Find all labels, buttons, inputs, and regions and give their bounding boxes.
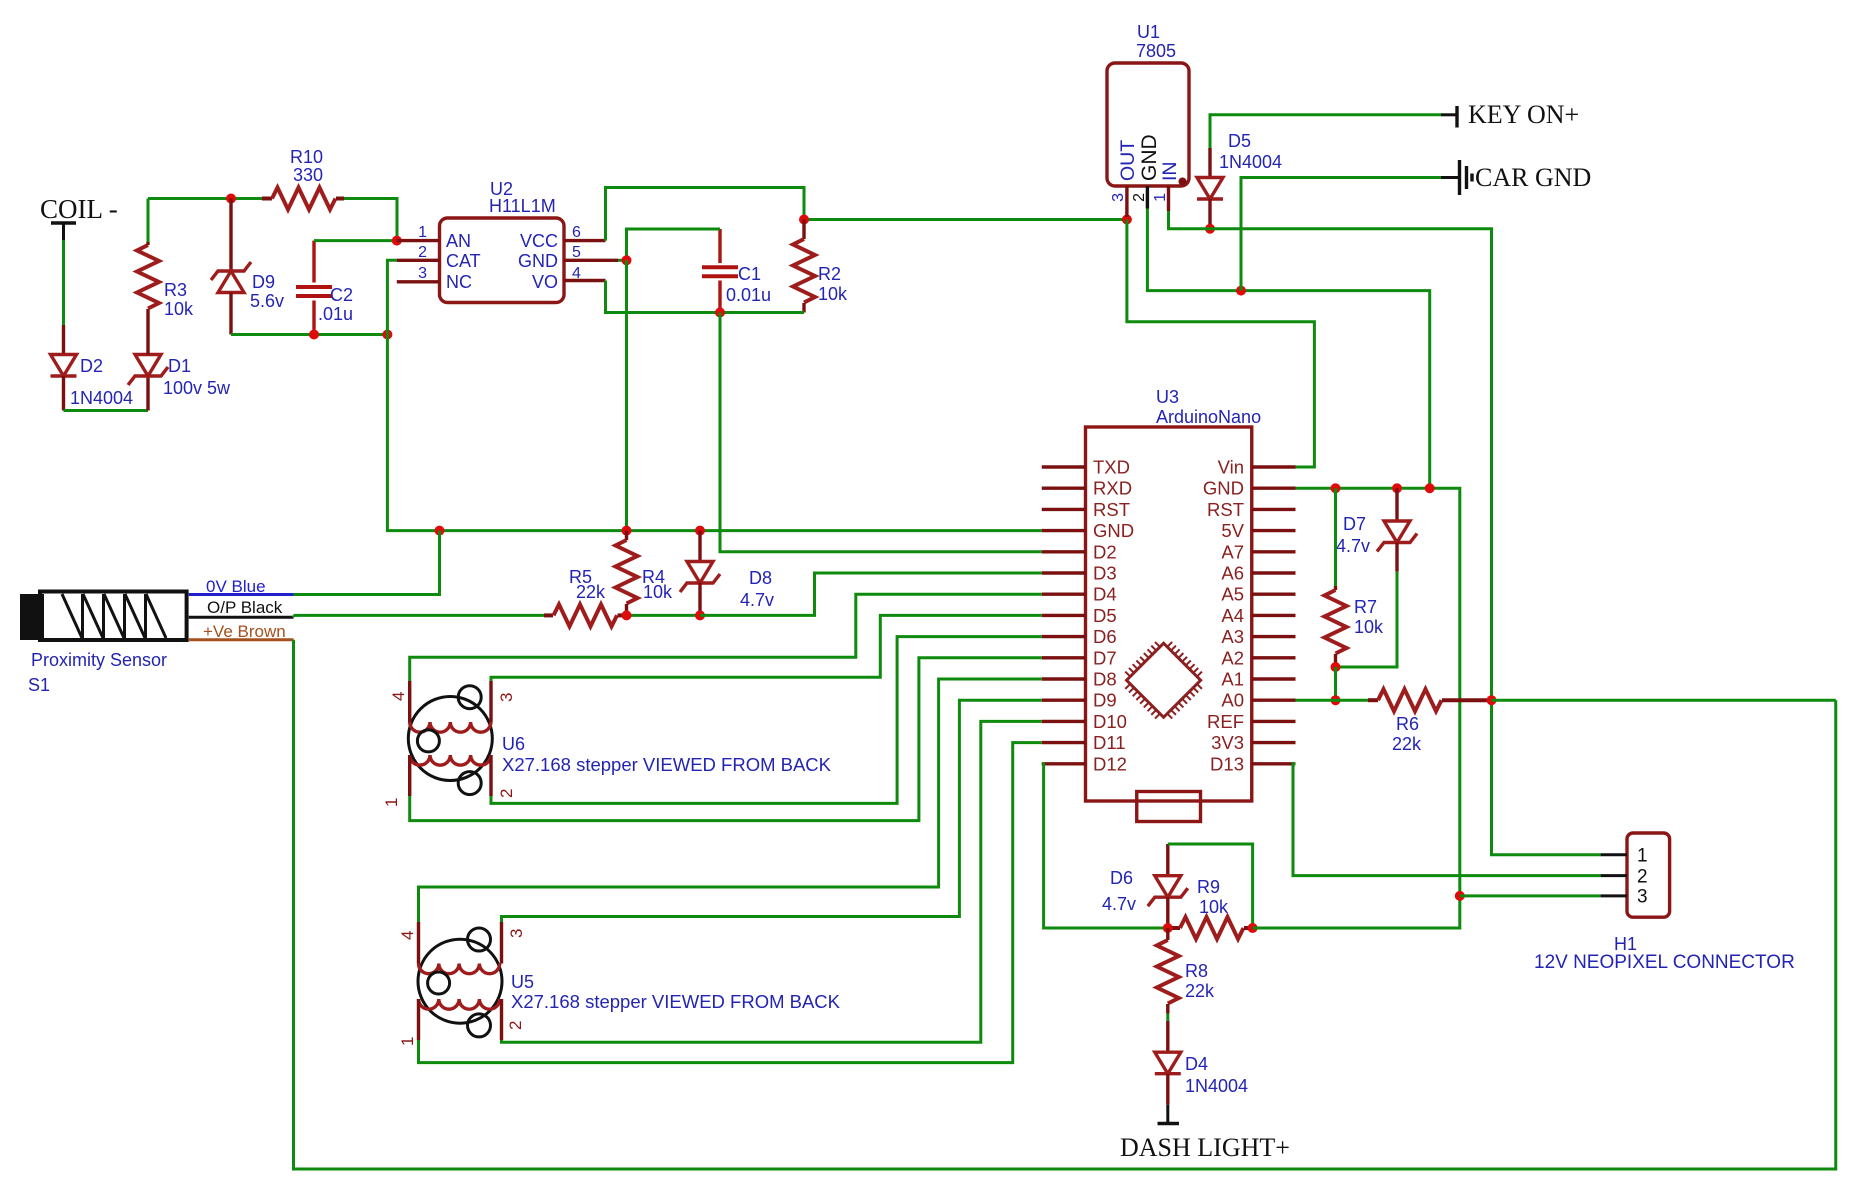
svg-text:D1: D1: [168, 356, 191, 376]
svg-text:D9: D9: [252, 272, 275, 292]
svg-text:A2: A2: [1221, 647, 1244, 668]
U2 pin names: [446, 231, 558, 292]
svg-text:2: 2: [1637, 867, 1648, 888]
wire COIL- to D2: [62, 240, 65, 325]
svg-text:5V: 5V: [1221, 520, 1244, 541]
wire U5 pin4 to Arduino D8: [419, 679, 1042, 922]
wire U6 pin3 to Arduino D5: [491, 615, 1042, 681]
resistor R6 22k: [1368, 689, 1492, 754]
svg-text:COIL -: COIL -: [40, 194, 118, 224]
wire R4 node to D8 node: [627, 614, 701, 617]
junction C2 bottom: [309, 330, 319, 340]
junction A0 node: [1331, 695, 1341, 705]
svg-text:D2: D2: [1093, 541, 1117, 562]
svg-text:0.01u: 0.01u: [726, 285, 771, 305]
wire IN net 12V: [1169, 211, 1492, 700]
svg-text:6: 6: [572, 224, 581, 241]
resistor R3 10k: [137, 242, 194, 355]
wire R10 right to U2 pin1: [344, 199, 397, 241]
junction GND rail D7: [1392, 483, 1402, 493]
svg-text:D13: D13: [1210, 753, 1244, 774]
svg-text:D12: D12: [1093, 753, 1127, 774]
svg-text:D11: D11: [1093, 732, 1126, 753]
svg-text:D4: D4: [1185, 1054, 1208, 1074]
svg-text:R2: R2: [818, 264, 841, 284]
svg-text:4: 4: [572, 265, 581, 282]
svg-text:X27.168 stepper VIEWED FROM BA: X27.168 stepper VIEWED FROM BACK: [502, 754, 832, 775]
svg-text:REF: REF: [1207, 711, 1244, 732]
svg-text:D8: D8: [1093, 669, 1117, 690]
wire 0V blue net: [294, 531, 440, 595]
svg-text:VCC: VCC: [520, 231, 558, 251]
svg-text:4: 4: [389, 692, 408, 701]
wire R3 top to rail: [147, 199, 150, 243]
svg-text:NC: NC: [446, 272, 472, 292]
wire VO down to Arduino D2: [720, 313, 1042, 552]
diode D9 5.6v zener: [211, 199, 284, 335]
junction CAT rail node: [382, 330, 392, 340]
node COIL- terminal: [40, 194, 118, 240]
wire up to CAR GND flag: [1241, 178, 1441, 291]
svg-text:DASH LIGHT+: DASH LIGHT+: [1120, 1133, 1290, 1162]
resistor R5 22k: [544, 567, 627, 626]
wire U6 pin1 to Arduino D7: [410, 658, 1042, 821]
svg-text:.01u: .01u: [318, 304, 353, 324]
resistor R4 10k: [616, 531, 674, 616]
svg-text:D10: D10: [1093, 711, 1127, 732]
junction R6 right 12V node: [1487, 695, 1497, 705]
wire O/P to R5: [294, 614, 545, 617]
svg-text:A5: A5: [1221, 584, 1244, 605]
junction GND rail R7: [1331, 483, 1341, 493]
svg-text:KEY ON+: KEY ON+: [1468, 100, 1579, 129]
wire CAT rail down to GND rail: [387, 335, 1041, 531]
svg-text:100v 5w: 100v 5w: [163, 378, 231, 398]
svg-text:D5: D5: [1228, 131, 1251, 151]
svg-text:CAR GND: CAR GND: [1475, 163, 1591, 192]
wire CAT to bottom rail: [387, 260, 397, 334]
capacitor C1 0.01u: [702, 229, 771, 313]
U1 pin stubs: [1127, 186, 1169, 217]
op-amp U2 H11L1M optocoupler: [440, 179, 565, 303]
mcu U3 ArduinoNano: [1086, 387, 1262, 801]
wire U6 pin2 to Arduino D6: [491, 637, 1042, 804]
svg-text:D7: D7: [1343, 514, 1366, 534]
svg-text:D6: D6: [1093, 626, 1117, 647]
svg-text:330: 330: [293, 165, 323, 185]
svg-text:D4: D4: [1093, 584, 1117, 605]
svg-text:3: 3: [1637, 887, 1648, 908]
svg-text:S1: S1: [28, 675, 50, 695]
U6 pin stubs: [410, 681, 491, 796]
junction U2 pin5: [622, 255, 632, 265]
svg-text:A0: A0: [1221, 690, 1244, 711]
svg-text:D6: D6: [1110, 868, 1133, 888]
svg-text:D8: D8: [749, 568, 772, 588]
diode D5 1N4004: [1197, 131, 1282, 229]
svg-text:1: 1: [418, 224, 427, 241]
U3 pin stubs right: [1252, 467, 1296, 764]
svg-text:4.7v: 4.7v: [1102, 894, 1136, 914]
wire VCC to 7805 OUT: [804, 218, 1127, 221]
svg-text:U6: U6: [502, 734, 525, 754]
wire IN net down to H1 pin1: [1492, 700, 1601, 855]
svg-text:D3: D3: [1093, 563, 1117, 584]
svg-text:CAT: CAT: [446, 251, 481, 271]
svg-text:1N4004: 1N4004: [70, 388, 133, 408]
regulator U1 7805: [1107, 22, 1189, 186]
svg-text:C1: C1: [738, 264, 761, 284]
wire U2 pin1 to C2 top: [314, 239, 397, 242]
svg-text:5.6v: 5.6v: [250, 291, 284, 311]
svg-text:R10: R10: [290, 147, 323, 167]
svg-text:12V NEOPIXEL CONNECTOR: 12V NEOPIXEL CONNECTOR: [1534, 952, 1795, 973]
svg-text:D5: D5: [1093, 605, 1117, 626]
wire U2 pin5 to GND vertical: [618, 259, 627, 262]
U3 chip glyph: [1117, 633, 1211, 727]
wire 0V blue segment: [189, 577, 294, 596]
diode D4 1N4004: [1155, 1021, 1248, 1105]
svg-text:RST: RST: [1207, 499, 1244, 520]
wire D6 top loop to R9 right: [1168, 844, 1253, 928]
svg-text:AN: AN: [446, 231, 471, 251]
ground CAR GND symbol: [1441, 160, 1591, 195]
junction O/P node D8: [695, 610, 705, 620]
U1 pin numbers: [1110, 193, 1169, 202]
wire GND right rail: [1296, 488, 1460, 896]
svg-text:ArduinoNano: ArduinoNano: [1156, 407, 1261, 427]
H1 pin numbers: [1637, 846, 1648, 908]
connector H1 12V NEOPIXEL: [1534, 833, 1795, 973]
U3 pin names right: [1203, 457, 1245, 775]
junction 7805 OUT node: [1122, 215, 1132, 225]
svg-text:10k: 10k: [1354, 617, 1384, 637]
U1 inner corner dot: [1179, 178, 1187, 186]
wire coil top rail: [148, 197, 262, 200]
svg-text:3: 3: [497, 693, 516, 702]
U3 pin names left: [1093, 457, 1134, 775]
wire D2-D1 bottom: [64, 409, 149, 412]
svg-text:U5: U5: [511, 972, 534, 992]
wire O/P black segment: [189, 598, 294, 617]
node KEY ON+ terminal: [1441, 100, 1579, 129]
junction U2 pin1 node: [392, 236, 402, 246]
diode D6 4.7v zener: [1102, 844, 1188, 928]
H1 pin stubs: [1601, 855, 1627, 896]
svg-text:3: 3: [1110, 193, 1127, 202]
wire GND to H1 pin3: [1460, 894, 1601, 897]
wire D9/C2 bottom rail: [231, 333, 387, 336]
resistor R8 22k: [1157, 928, 1215, 1014]
svg-text:R3: R3: [164, 280, 187, 300]
svg-text:IN: IN: [1159, 162, 1181, 182]
svg-text:10k: 10k: [164, 299, 194, 319]
svg-text:R7: R7: [1354, 597, 1377, 617]
svg-text:H11L1M: H11L1M: [489, 196, 556, 216]
resistor R9 10k: [1168, 877, 1253, 939]
svg-text:22k: 22k: [576, 582, 606, 602]
junction H1 pin3 GND node: [1455, 891, 1465, 901]
svg-text:2: 2: [506, 1021, 525, 1030]
wire Arduino D13 to H1 pin2: [1293, 764, 1601, 876]
svg-text:10k: 10k: [818, 284, 848, 304]
sensor S1 proximity sensor: [20, 592, 187, 696]
svg-text:U1: U1: [1137, 22, 1160, 42]
resistor R7 10k: [1325, 488, 1385, 667]
svg-text:A3: A3: [1221, 626, 1244, 647]
svg-text:A1: A1: [1221, 669, 1244, 690]
svg-text:10k: 10k: [643, 582, 673, 602]
junction O/P node R4: [622, 610, 632, 620]
junction R9 right node: [1248, 923, 1258, 933]
wire R8 to D4: [1166, 1014, 1169, 1022]
U6 pin numbers: [382, 692, 516, 807]
svg-text:D9: D9: [1093, 690, 1117, 711]
diode D7 4.7v zener: [1336, 488, 1417, 571]
wire R7 bottom to A0 row: [1334, 667, 1337, 700]
svg-text:1: 1: [382, 798, 401, 807]
stepper U5 X27.168: [418, 928, 841, 1037]
svg-text:D7: D7: [1093, 647, 1117, 668]
svg-text:4.7v: 4.7v: [740, 590, 774, 610]
U3 usb connector glyph: [1137, 792, 1201, 822]
U5 pin numbers: [398, 929, 526, 1046]
wire Arduino D12 to D6 node: [1042, 764, 1168, 928]
capacitor C2 .01u: [296, 241, 353, 335]
junction D5 cathode IN node: [1205, 224, 1215, 234]
svg-text:U3: U3: [1156, 387, 1179, 407]
junction D6/R9 left node: [1163, 923, 1173, 933]
wire U5 pin3 to Arduino D9: [502, 700, 1042, 922]
diode D8 4.7v zener: [680, 531, 774, 616]
junction R7 bottom: [1331, 662, 1341, 672]
junction R10/D9 node: [226, 194, 236, 204]
wire VO rail: [606, 281, 805, 313]
svg-text:R9: R9: [1197, 877, 1220, 897]
svg-text:GND: GND: [1138, 134, 1161, 181]
svg-text:1N4004: 1N4004: [1219, 152, 1282, 172]
svg-text:GND: GND: [518, 251, 558, 271]
wire U5 pin2 to Arduino D10: [502, 721, 1042, 1042]
svg-text:2: 2: [497, 789, 516, 798]
wire U2 GND loop to C1 top: [627, 229, 721, 260]
wire GND net from U1 pin2: [1147, 209, 1429, 489]
svg-text:3: 3: [418, 265, 427, 282]
U1 pin names: [1117, 134, 1181, 181]
U2 pin numbers: [418, 224, 581, 282]
svg-text:OUT: OUT: [1117, 140, 1139, 181]
svg-text:4: 4: [398, 931, 417, 940]
svg-text:GND: GND: [1203, 478, 1244, 499]
wire GND vertical U2 to rail: [625, 260, 628, 530]
wire U5 pin1 to Arduino D11: [419, 743, 1042, 1063]
wire A0 to R6: [1296, 699, 1369, 702]
wire R9 right to GND branch: [1253, 896, 1460, 928]
diode D1 100v 5w (TVS): [128, 355, 231, 411]
U3 pin stubs left: [1042, 467, 1086, 764]
junction C1 bottom: [715, 308, 725, 318]
resistor R10 330: [262, 147, 344, 210]
junction GND rail car-gnd: [1425, 483, 1435, 493]
svg-text:2: 2: [418, 244, 427, 261]
wire U6 pin4 to Arduino D4: [410, 594, 1042, 681]
svg-text:22k: 22k: [1185, 981, 1215, 1001]
svg-text:R8: R8: [1185, 961, 1208, 981]
U5 pin stubs: [419, 922, 502, 1040]
svg-text:D2: D2: [80, 356, 103, 376]
svg-text:2: 2: [1131, 193, 1148, 202]
wire OUT net to Arduino Vin: [1127, 220, 1315, 468]
svg-text:RXD: RXD: [1093, 478, 1132, 499]
junction CAR GND branch: [1236, 286, 1246, 296]
svg-text:1: 1: [1152, 193, 1169, 202]
junction GND rail nodes: [435, 526, 706, 536]
svg-text:3: 3: [507, 929, 526, 938]
svg-text:1: 1: [398, 1037, 417, 1046]
svg-text:0V Blue: 0V Blue: [206, 577, 266, 596]
svg-text:10k: 10k: [1199, 897, 1229, 917]
svg-text:7805: 7805: [1136, 41, 1176, 61]
wire O/P node to Arduino D3: [700, 573, 1042, 615]
U2 pin stubs: [397, 241, 618, 282]
junction R2 top: [799, 215, 809, 225]
svg-text:Proximity Sensor: Proximity Sensor: [31, 650, 167, 670]
svg-text:+Ve Brown: +Ve Brown: [203, 622, 286, 641]
svg-text:1: 1: [1637, 846, 1648, 867]
svg-text:A6: A6: [1221, 563, 1244, 584]
wire 12V node to bottom-right rail: [1492, 699, 1836, 702]
svg-text:GND: GND: [1093, 520, 1134, 541]
wire VCC net U2 pin6 to R2 top: [606, 188, 805, 241]
resistor R2 10k: [793, 220, 848, 313]
svg-text:R6: R6: [1396, 714, 1419, 734]
svg-text:H1: H1: [1614, 934, 1637, 954]
svg-text:1N4004: 1N4004: [1185, 1076, 1248, 1096]
svg-text:5: 5: [572, 244, 581, 261]
svg-text:VO: VO: [532, 272, 558, 292]
svg-text:3V3: 3V3: [1211, 732, 1244, 753]
svg-text:TXD: TXD: [1093, 457, 1130, 478]
svg-text:A4: A4: [1221, 605, 1244, 626]
wire +Ve to bottom rail: [294, 640, 1836, 1169]
svg-text:A7: A7: [1221, 541, 1244, 562]
svg-text:RST: RST: [1093, 499, 1130, 520]
svg-text:O/P Black: O/P Black: [207, 598, 283, 617]
svg-text:X27.168 stepper VIEWED FROM BA: X27.168 stepper VIEWED FROM BACK: [511, 991, 841, 1012]
wire D7 bottom loop: [1336, 572, 1398, 667]
wire +Ve brown segment: [189, 622, 294, 641]
svg-text:Vin: Vin: [1218, 457, 1244, 478]
diode D2 1N4004: [51, 325, 134, 411]
stepper U6 X27.168: [408, 686, 831, 795]
svg-text:4.7v: 4.7v: [1336, 536, 1370, 556]
svg-text:C2: C2: [330, 285, 353, 305]
node DASH LIGHT+ terminal: [1120, 1105, 1290, 1162]
svg-text:22k: 22k: [1392, 734, 1422, 754]
wire KEY ON+ to D5: [1210, 115, 1441, 148]
